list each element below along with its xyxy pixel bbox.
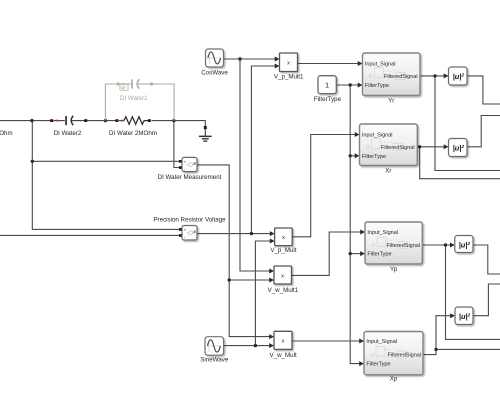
wire: Xp output up to |u|^2 U4 <box>423 316 451 355</box>
product block V_w_Mult <box>270 331 297 359</box>
product block V_p_Mult <box>270 228 296 254</box>
svg-text:FilterType: FilterType <box>314 96 342 103</box>
arrow into V_w_Mult in1 <box>269 334 274 339</box>
subsystem block Xr <box>360 124 418 175</box>
constant block FilterType value 1 <box>314 76 342 104</box>
svg-text:Input_Signal: Input_Signal <box>362 133 393 139</box>
arrow into Xp Input_Signal <box>359 339 364 344</box>
wire: resistor-right node down to DI Water Measurement in2 <box>174 121 179 168</box>
svg-text:CosWave: CosWave <box>201 69 228 76</box>
node: Precision Resistor Voltage output branch <box>250 232 253 235</box>
source block CosWave <box>201 49 228 76</box>
product block V_p_Mult1 <box>274 53 304 80</box>
arrow into U2 <box>444 144 449 149</box>
svg-text:FilteredSignal: FilteredSignal <box>386 243 420 249</box>
svg-text:DI Water1: DI Water1 <box>120 95 148 102</box>
wire: Yp output to |u|^2 U3 <box>422 244 450 246</box>
wire: between capacitor DI Water2 and resistor DI Water 2MOhm <box>87 120 116 122</box>
svg-text:V_w_Mult: V_w_Mult <box>270 352 297 359</box>
wire: sin branch up to V_p_Mult in2 <box>255 241 270 346</box>
wire: left rail down to Precision Resistor Voltage in1 <box>32 121 179 230</box>
arrow into V_w_Mult1 in1 <box>269 269 274 274</box>
wire: FilterType branch to Xr <box>350 155 355 157</box>
svg-text:Input_Signal: Input_Signal <box>366 339 397 345</box>
wire: cos branch down to V_w_Mult1 in1 <box>240 59 270 271</box>
svg-text:x: x <box>281 273 284 279</box>
arrow into Xr Input_Signal <box>355 132 360 137</box>
svg-text:x: x <box>282 235 285 241</box>
svg-text:x: x <box>287 60 290 66</box>
node: Xr output branch <box>418 145 421 148</box>
svg-text:FilteredSignal: FilteredSignal <box>381 145 415 151</box>
svg-text:Yr: Yr <box>388 97 394 104</box>
arrow into U1 <box>444 73 449 78</box>
math block U1 |u|^2 <box>449 67 468 85</box>
wire: main circuit node at y=120.6 from left edge <box>0 120 51 122</box>
wire: U3 output to right edge <box>473 245 500 274</box>
capacitor DI Water1 (commented out, grey) <box>105 79 174 120</box>
svg-text:FilteredSignal: FilteredSignal <box>387 353 421 359</box>
wire: V_p_Mult output up to Xr Input_Signal <box>292 135 355 237</box>
svg-text:Xp: Xp <box>390 376 398 383</box>
wire: V_w_Mult output to Xp Input_Signal <box>292 340 360 342</box>
svg-text:1: 1 <box>325 81 329 90</box>
resistor DI Water 2MOhm <box>109 117 157 138</box>
wire: Xp branch to right edge <box>436 348 500 350</box>
node: rail branch to DI Water Measurement <box>31 160 34 163</box>
arrow into V_p_Mult in1 <box>270 231 275 236</box>
arrow into Yp Input_Signal <box>360 230 365 235</box>
arrow into V_w_Mult in2 <box>269 343 274 348</box>
node: CosWave branch <box>238 57 241 60</box>
arrow into U4 <box>450 313 455 318</box>
wire: V_w_Mult1 output up to Yp Input_Signal <box>292 232 361 275</box>
wire: FilterType constant to Yr FilterType <box>336 84 358 86</box>
math block U4 |u|^2 <box>455 307 473 325</box>
wire: from left edge to Precision Resistor Voltage in2 <box>0 234 179 236</box>
node: Xp output branch <box>434 348 437 351</box>
wire: CosWave output to V_p_Mult1 in1 <box>224 58 276 60</box>
wire: branch to V_w_Mult1 in2 <box>229 279 270 281</box>
node: DI Water Measurement branch to V_w_Mult1 <box>228 278 231 281</box>
arrow into Yr FilterType <box>358 83 363 88</box>
wire: rail branch to DI Water Measurement in1 <box>32 160 179 162</box>
svg-text:Input_Signal: Input_Signal <box>367 230 398 236</box>
wire: DI Water Measurement output down to V_w_Mult in1 <box>197 165 270 337</box>
arrow into Xp FilterType <box>359 361 364 366</box>
subsystem block Yp <box>365 222 422 273</box>
node: Yp output branch <box>444 243 447 246</box>
node: left rail tap on main node <box>30 119 33 122</box>
ARROWHEADS <box>269 57 455 367</box>
svg-text:DI Water 2MOhm: DI Water 2MOhm <box>109 130 157 137</box>
svg-text:DI Water Measurement: DI Water Measurement <box>158 174 222 181</box>
wire: Yr output to |u|^2 U1 <box>420 75 444 77</box>
subsystem block Xp <box>364 332 423 383</box>
svg-text:FilterType: FilterType <box>362 154 386 160</box>
arrow into V_p_Mult1 in2 <box>275 64 280 69</box>
product block V_w_Mult1 <box>268 266 299 294</box>
wire: FilterType branch to Yp <box>350 253 361 255</box>
source block SineWave <box>200 337 229 364</box>
svg-text:Input_Signal: Input_Signal <box>365 62 396 68</box>
wire: Yr branch down to right edge <box>435 76 500 171</box>
voltage sensor block Precision Resistor Voltage <box>153 217 226 240</box>
arrow into Xr FilterType <box>355 153 360 158</box>
arrow into Yp FilterType <box>360 251 365 256</box>
svg-text:SineWave: SineWave <box>200 356 229 363</box>
wire: resistor right to ground drop <box>152 121 206 127</box>
node: FilterType branch at Yr <box>349 83 352 86</box>
wire: U1 output to right edge <box>467 76 500 104</box>
svg-text:Precision Resistor Voltage: Precision Resistor Voltage <box>153 217 226 224</box>
svg-text:Ohm: Ohm <box>0 130 13 137</box>
svg-text:FilteredSignal: FilteredSignal <box>384 74 418 80</box>
capacitor DI Water2 <box>50 116 87 137</box>
arrow into V_w_Mult1 in2 <box>269 278 274 283</box>
wire: SineWave output to V_w_Mult in2 <box>224 345 270 347</box>
svg-text:DI Water2: DI Water2 <box>54 130 82 137</box>
wire: U2 output to right edge <box>467 116 500 147</box>
svg-text:V_w_Mult1: V_w_Mult1 <box>268 287 299 294</box>
wire: V_p_Mult1 output to Yr Input_Signal <box>298 63 359 65</box>
node: FilterType branch at Xr <box>349 154 352 157</box>
arrow into V_p_Mult in2 <box>270 239 275 244</box>
voltage sensor block DI Water Measurement <box>158 157 222 181</box>
wire: U4 output to right edge <box>473 284 500 316</box>
wire: Precision Resistor Voltage output to V_p_Mult in1 <box>197 233 270 235</box>
svg-text:Xr: Xr <box>385 168 391 175</box>
math block U2 |u|^2 <box>449 139 468 157</box>
subsystem block Yr <box>363 53 421 104</box>
arrow into Yr Input_Signal <box>358 61 363 66</box>
wire: Xr branch down to right edge <box>420 147 500 179</box>
arrow into U3 <box>450 243 455 248</box>
wire: riser to V_p_Mult1 in2 <box>251 66 275 234</box>
arrow into V_p_Mult1 in1 <box>275 57 280 62</box>
wire: Xr output to |u|^2 U2 <box>417 146 444 148</box>
svg-text:FilterType: FilterType <box>365 83 389 89</box>
svg-text:FilterType: FilterType <box>366 362 390 368</box>
svg-text:V_p_Mult1: V_p_Mult1 <box>274 73 304 80</box>
node: DI Water1 left lead tap <box>104 119 107 122</box>
svg-text:V_p_Mult: V_p_Mult <box>270 247 296 254</box>
node: Yr output branch <box>433 74 436 77</box>
wire: Yp branch down to right edge <box>446 245 500 339</box>
svg-text:x: x <box>282 339 285 345</box>
node: FilterType branch at Yp <box>349 252 352 255</box>
ground <box>199 126 212 142</box>
svg-text:Yp: Yp <box>390 266 398 273</box>
svg-text:+: + <box>184 159 187 164</box>
node: DI Water1 right lead / measurement tap <box>172 119 175 122</box>
svg-text:+: + <box>184 228 187 233</box>
node: SineWave output branch <box>254 344 257 347</box>
math block U3 |u|^2 <box>455 236 473 253</box>
svg-text:FilterType: FilterType <box>367 252 391 258</box>
wire: FilterType bus down to Xr, Yp, Xp <box>350 85 360 364</box>
